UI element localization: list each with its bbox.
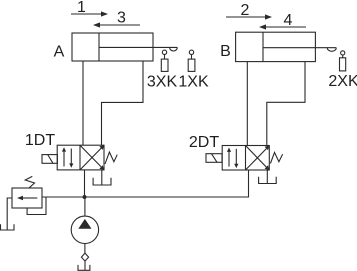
svg-text:4: 4: [284, 12, 293, 29]
svg-text:2: 2: [241, 2, 250, 19]
svg-text:3XK: 3XK: [147, 74, 178, 91]
svg-text:B: B: [220, 43, 231, 60]
svg-text:A: A: [54, 44, 65, 61]
svg-text:2DT: 2DT: [189, 134, 219, 151]
svg-text:1: 1: [77, 0, 86, 16]
svg-text:2XK: 2XK: [328, 73, 357, 90]
svg-text:1XK: 1XK: [178, 74, 209, 91]
svg-text:3: 3: [117, 10, 126, 27]
svg-text:1DT: 1DT: [25, 132, 55, 149]
